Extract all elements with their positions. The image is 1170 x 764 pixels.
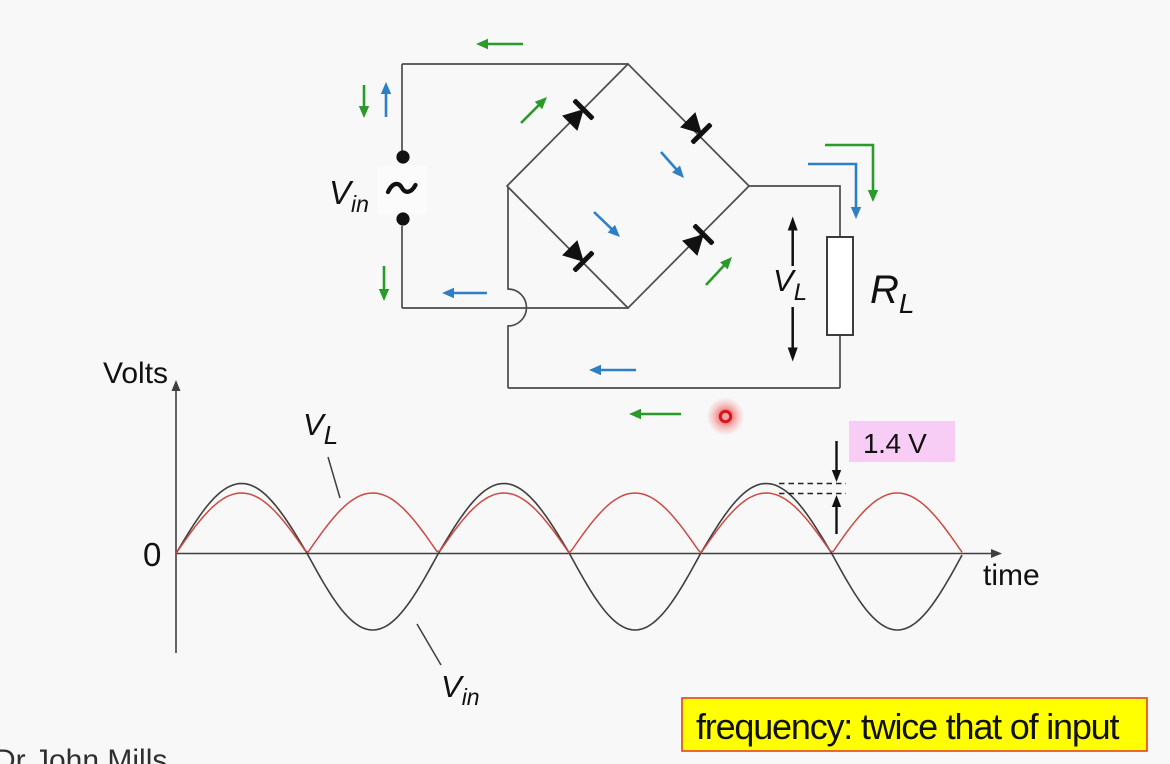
dashed level line at V_L peak	[779, 493, 846, 495]
blue current arrow: up at source top	[381, 82, 391, 117]
dashed level line at V_in peak	[779, 483, 846, 485]
green current arrow: through D1	[521, 97, 547, 123]
1.4V gap arrow (up)	[832, 495, 841, 534]
blue current arrow: through D3 branch	[594, 212, 620, 237]
diode D1 (left node to top node)	[560, 98, 595, 133]
blue current arrow: through D2 branch	[661, 152, 684, 178]
diode bridge diamond outline	[507, 64, 749, 308]
V_L up arrow	[788, 217, 798, 267]
wire: from bridge left node down with hop over bottom wire	[508, 187, 527, 388]
diode D3 (left node to bottom node)	[560, 238, 595, 273]
blue current arrow: into R_L (bent)	[808, 164, 861, 219]
laser pointer dot	[707, 398, 745, 436]
wire: bottom return rail to R_L	[508, 387, 840, 389]
graph vertical axis	[172, 380, 181, 653]
1.4 V highlighted label	[849, 421, 955, 462]
green current arrow: down at source top	[359, 85, 369, 118]
graph horizontal axis	[176, 549, 1002, 558]
svg-text:1.4 V: 1.4 V	[863, 428, 927, 459]
V_L waveform (red rectified sine)	[176, 493, 962, 554]
diode D2 (top node to right node)	[678, 110, 713, 145]
AC source terminal dot (top)	[396, 150, 409, 163]
blue current arrow: return rail leftward	[589, 365, 636, 375]
blue current arrow: bottom wire leftward	[442, 288, 487, 298]
diode D4 (bottom node to right node)	[680, 223, 715, 258]
AC source V_in body (white backing)	[377, 166, 427, 214]
svg-text:0: 0	[143, 536, 161, 573]
svg-text:time: time	[983, 559, 1040, 592]
leader line for V_in label	[417, 624, 441, 665]
V_L down arrow	[788, 307, 798, 362]
wire: top wire from source to bridge top node	[402, 63, 628, 65]
1.4V gap arrow (down)	[832, 441, 841, 482]
green current arrow: into R_L (bent)	[825, 145, 878, 202]
wire: bridge right node to R_L top	[749, 186, 840, 237]
V_in waveform (black sine)	[176, 484, 962, 631]
green current arrow: return rail leftward	[629, 409, 681, 419]
frequency note (yellow highlight box)	[682, 698, 1147, 751]
green current arrow: top wire leftward	[476, 39, 523, 49]
svg-text:frequency: twice that of input: frequency: twice that of input	[696, 706, 1119, 747]
wire: bottom wire from source to bridge bottom node	[402, 307, 628, 309]
resistor R_L	[827, 237, 853, 335]
wire: AC source top lead	[401, 64, 403, 152]
svg-text:Volts: Volts	[103, 357, 168, 390]
svg-text:Dr John Mills: Dr John Mills	[0, 744, 167, 764]
wire: R_L bottom lead	[839, 335, 841, 388]
green current arrow: through D4	[706, 257, 732, 285]
AC source terminal dot (bottom)	[396, 212, 409, 225]
AC source tilde symbol	[388, 184, 416, 192]
leader line for V_L label	[328, 457, 340, 498]
wire: AC source bottom lead	[401, 226, 403, 308]
green current arrow: down at source bottom	[379, 266, 389, 301]
